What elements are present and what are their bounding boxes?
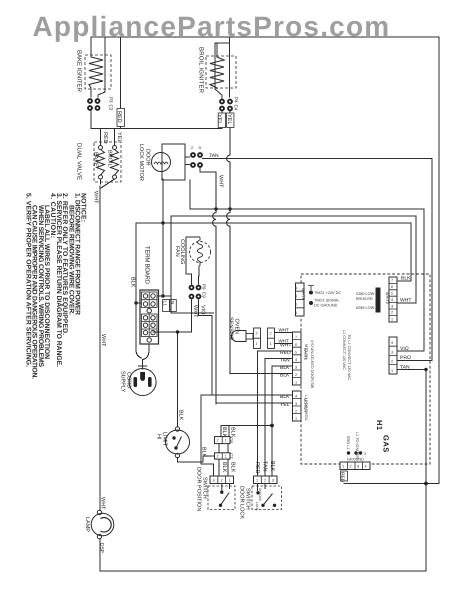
svg-text:1: 1 <box>295 311 297 315</box>
svg-text:UNLOCK: UNLOCK <box>258 488 262 502</box>
svg-text:SENSOR: SENSOR <box>228 317 234 340</box>
door lock motor box <box>162 144 185 180</box>
svg-text:WHITE: WHITE <box>301 288 305 301</box>
wire: valve bake drop RED <box>100 129 102 146</box>
svg-text:BLK: BLK <box>280 394 290 400</box>
wire: BLK board lead to door position switch <box>201 395 293 476</box>
rotated wire labels <box>93 97 346 510</box>
connector P2/C2 <box>190 152 203 168</box>
wire: BLK lead 2 to corridor <box>230 373 293 375</box>
svg-text:3: 3 <box>295 402 297 406</box>
svg-text:MOTOR: MOTOR <box>303 398 307 412</box>
wire: BLK pin lead <box>397 280 411 282</box>
svg-text:OVEN: OVEN <box>234 319 240 335</box>
label box RED tap <box>117 109 125 127</box>
wire: sensor WHT lead 1 <box>275 332 293 334</box>
junction bottom RED line / right vertical <box>424 482 428 486</box>
cooling fan box <box>186 237 200 274</box>
svg-text:DSP: DSP <box>99 543 105 553</box>
svg-text:VIO: VIO <box>400 346 409 352</box>
svg-text:4: 4 <box>295 395 297 399</box>
resistor bake igniter element <box>89 57 103 88</box>
svg-text:BAKE: BAKE <box>93 152 99 167</box>
svg-text:TAN: TAN <box>280 358 290 364</box>
door lock switch dashed box <box>252 486 282 510</box>
oven sensor connector half 2 <box>268 328 275 349</box>
wire: fan WHT down <box>191 300 193 332</box>
svg-text:1: 1 <box>270 342 272 346</box>
wire: bottom RED line from board connector to right side <box>344 483 439 485</box>
svg-text:2: 2 <box>221 479 223 483</box>
svg-text:DC GROUND: DC GROUND <box>314 304 338 308</box>
header P5 <box>389 277 397 322</box>
svg-text:2: 2 <box>217 439 219 443</box>
junction TAN pin / right vertical <box>424 368 427 371</box>
wire: RED tap from top line <box>120 37 122 129</box>
resistor broil valve coil <box>111 150 119 176</box>
svg-text:LOCK: LOCK <box>255 502 259 512</box>
svg-text:2: 2 <box>364 452 366 456</box>
svg-text:BLK: BLK <box>229 462 235 473</box>
svg-text:DOOR LOCK: DOOR LOCK <box>239 486 245 519</box>
svg-text:1: 1 <box>295 417 297 421</box>
door position switch dashed box <box>208 486 235 510</box>
wire: bottom neutral line to lamp <box>100 570 426 572</box>
wire: door lock motor left lead <box>162 179 164 296</box>
svg-text:YEL: YEL <box>216 114 222 124</box>
svg-text:1: 1 <box>342 465 344 469</box>
junction BLK door switch branch <box>270 424 274 428</box>
wire: fan VIO lead <box>199 300 213 316</box>
label box YEL right <box>227 113 234 128</box>
wire: BLK lead to door lock switch <box>272 366 293 476</box>
svg-text:1: 1 <box>225 439 227 443</box>
svg-text:HI: HI <box>156 434 162 440</box>
wire: PRO pin lead <box>397 360 432 362</box>
wire: YEL board lead <box>216 402 293 404</box>
svg-text:SWITCH: SWITCH <box>245 488 251 510</box>
connector C8 <box>215 437 231 444</box>
rotated component labels <box>76 47 391 553</box>
resistor bake valve coil <box>97 150 105 176</box>
svg-text:2: 2 <box>295 303 297 307</box>
svg-text:2: 2 <box>391 311 393 315</box>
svg-text:BLK: BLK <box>130 277 136 288</box>
svg-text:N: N <box>170 301 175 304</box>
bake igniter dashed enclosure <box>85 55 111 89</box>
svg-text:SUPPLY: SUPPLY <box>120 371 126 393</box>
svg-text:3: 3 <box>391 351 393 355</box>
svg-text:DOOR: DOOR <box>145 149 151 166</box>
horizontal wire labels <box>209 153 411 408</box>
wire: igniter return bus <box>91 128 222 130</box>
broil igniter dashed enclosure <box>206 56 236 88</box>
wire: broil igniter loop top <box>215 42 229 44</box>
svg-text:1: 1 <box>391 369 393 373</box>
wire: broil resistor stub <box>216 43 218 57</box>
wire: top L1 line <box>91 36 439 38</box>
svg-text:L1 CONNECT 120 VAC: L1 CONNECT 120 VAC <box>342 330 346 370</box>
svg-text:4: 4 <box>295 287 297 291</box>
svg-text:2: 2 <box>295 410 297 414</box>
wire: sensor WHT lead 2 <box>275 343 293 345</box>
svg-text:7: 7 <box>391 279 393 283</box>
dual valve dashed enclosure <box>94 142 121 182</box>
svg-text:WHT: WHT <box>279 328 289 333</box>
wire: WHT pin lead <box>397 302 416 304</box>
wire: bus2 left drop to term board <box>170 216 172 313</box>
header P3 <box>293 391 302 421</box>
svg-text:BLK: BLK <box>280 373 290 379</box>
svg-text:5. VERIFY PROPER OPERATION AFT: 5. VERIFY PROPER OPERATION AFTER SERVICI… <box>25 193 32 367</box>
wire: bus3 drop to BLK pin <box>410 223 412 281</box>
door position switch connector <box>210 476 234 484</box>
svg-text:BLK: BLK <box>221 427 227 438</box>
svg-text:4+0 UNLOCKED DOOR SW: 4+0 UNLOCKED DOOR SW <box>310 340 314 389</box>
supply cord plug <box>129 369 156 396</box>
svg-text:RED: RED <box>339 472 345 483</box>
junction BLK / term board <box>134 301 137 304</box>
svg-text:4: 4 <box>391 298 393 302</box>
svg-text:C9: C9 <box>202 292 207 298</box>
connector C7 <box>215 453 231 459</box>
svg-text:4: 4 <box>295 358 297 362</box>
header P2 <box>293 332 302 385</box>
door lock switch connector <box>254 476 278 484</box>
svg-text:YEL: YEL <box>116 132 122 142</box>
svg-text:1: 1 <box>256 342 258 346</box>
wire: term board bottom to supply cord <box>143 344 149 360</box>
svg-text:BRO L1: BRO L1 <box>346 436 350 450</box>
label box L1 <box>163 300 170 312</box>
wire: bus line 1 <box>190 208 424 210</box>
svg-text:LAMP: LAMP <box>84 517 90 532</box>
wire: C8 to C7 stubs <box>219 444 228 453</box>
terminal board body <box>140 290 159 344</box>
svg-text:SWITCH: SWITCH <box>202 477 208 499</box>
wire: WHT/YEL corridor vertical <box>213 172 216 404</box>
svg-text:WHT: WHT <box>100 334 106 347</box>
wire: hi-limit lower lead <box>178 456 215 462</box>
wire: TAN pin lead <box>397 369 426 371</box>
wire: valve common WHT down <box>100 179 102 184</box>
svg-text:P9: P9 <box>202 284 207 290</box>
connector P9/C9 <box>189 285 202 300</box>
svg-text:PRO: PRO <box>400 355 411 361</box>
svg-text:RED: RED <box>116 111 122 123</box>
label box RED <box>341 471 348 481</box>
svg-text:2: 2 <box>191 146 193 150</box>
wire: bake connector to red bus <box>90 111 92 129</box>
label box N <box>170 300 177 312</box>
oven sensor connector half 1 <box>254 328 261 349</box>
svg-text:CORD: CORD <box>126 372 132 388</box>
wire: TAN lead to door lock switch <box>265 359 293 476</box>
svg-text:6: 6 <box>295 343 297 347</box>
wire: broil YEL to return bus <box>221 111 223 129</box>
wire: bake igniter lower leg to connector <box>90 88 92 97</box>
svg-text:DOOR POSITION: DOOR POSITION <box>196 467 202 511</box>
wire: C7 to door position connector stubs <box>219 459 228 476</box>
wire: broil igniter right leg from top line <box>228 37 230 97</box>
svg-text:YEL: YEL <box>280 402 290 408</box>
svg-text:RED: RED <box>102 132 108 144</box>
tiny board annotations <box>191 146 393 512</box>
header P4 <box>389 337 397 374</box>
svg-text:1: 1 <box>391 318 393 322</box>
TMO1 sensor pins <box>309 291 313 306</box>
svg-text:C8: C8 <box>229 437 234 443</box>
wire: broil igniter left leg <box>215 43 222 99</box>
svg-text:1: 1 <box>229 479 231 483</box>
control board dashed outline <box>301 274 430 464</box>
door lock switch contacts <box>257 484 259 492</box>
svg-text:1: 1 <box>225 455 227 459</box>
label box YEL left <box>218 113 225 128</box>
wire: C8 stubs <box>221 426 229 437</box>
wire: valve broil bottom diagonal <box>101 179 115 188</box>
junction WHT corridor / bus1 <box>214 207 217 210</box>
wire: term board L1 link <box>157 295 171 297</box>
svg-text:WHITE: WHITE <box>303 348 307 361</box>
connector P3/C3 <box>87 98 100 111</box>
wire: TAN from P2 connector to right side <box>203 158 433 160</box>
header P1 <box>296 283 305 316</box>
svg-text:4: 4 <box>391 341 393 345</box>
wire: door interlock BLK branch line <box>221 425 272 427</box>
svg-text:WHT: WHT <box>400 298 411 304</box>
svg-text:BLK: BLK <box>280 365 290 371</box>
svg-text:3: 3 <box>213 479 215 483</box>
svg-text:RED: RED <box>254 462 260 474</box>
wire: bus3 left drop BLK <box>136 223 142 358</box>
wire: lamp bottom lead <box>99 539 101 572</box>
svg-text:4: 4 <box>365 465 367 469</box>
svg-text:BROIL IGNITER: BROIL IGNITER <box>198 47 205 94</box>
svg-text:C3: C3 <box>109 105 114 111</box>
dual valve terminals <box>99 146 103 150</box>
wire: bake igniter right loop leg <box>98 37 105 97</box>
svg-text:BLK: BLK <box>269 461 275 472</box>
hi limit body <box>166 430 190 454</box>
wire: broil YEL long drop to board BLK pin <box>227 111 230 374</box>
svg-text:L1 TO IGNITER: L1 TO IGNITER <box>355 432 359 459</box>
svg-text:TAN: TAN <box>400 365 410 371</box>
svg-text:3: 3 <box>391 305 393 309</box>
oven lamp <box>91 513 114 536</box>
svg-text:BLK: BLK <box>401 276 411 282</box>
svg-text:TMO1 +24V DC: TMO1 +24V DC <box>314 291 341 295</box>
svg-text:2: 2 <box>391 360 393 364</box>
door position switch contacts <box>221 484 223 491</box>
wire: term board left stub <box>136 302 141 304</box>
wire: motor right lead to bus <box>189 180 191 209</box>
wire: hi-limit feed down <box>177 332 179 427</box>
svg-text:WHT: WHT <box>100 497 106 510</box>
svg-text:H1: H1 <box>375 420 384 431</box>
svg-text:2: 2 <box>217 455 219 459</box>
svg-text:L1: L1 <box>163 301 168 307</box>
wire: bake igniter left leg <box>90 37 92 57</box>
wire: term board row to hi-limit and fan <box>153 331 192 333</box>
svg-text:BLK: BLK <box>178 410 184 421</box>
junction motor lead / L1 link <box>161 294 164 297</box>
junction YEL corridor / bus1 <box>228 207 231 210</box>
svg-text:C4: C4 <box>234 105 239 111</box>
svg-text:2: 2 <box>270 332 272 336</box>
svg-text:LIMIT: LIMIT <box>162 432 168 447</box>
svg-text:WHT: WHT <box>280 343 291 349</box>
wire: bus2 drop to WHT pin <box>415 216 417 303</box>
svg-text:BAKE IGNITER: BAKE IGNITER <box>76 50 83 93</box>
svg-text:BROIL: BROIL <box>107 150 113 167</box>
svg-text:5: 5 <box>391 292 393 296</box>
wire: TAN right drop to PRO pin <box>431 159 433 361</box>
svg-text:FAN: FAN <box>174 246 180 257</box>
wire: VIO corridor vertical <box>211 316 213 395</box>
svg-text:P4: P4 <box>234 97 239 103</box>
svg-text:6: 6 <box>391 285 393 289</box>
wire: VIO pin lead <box>397 350 424 352</box>
wire: bus line 2 <box>171 215 416 217</box>
svg-text:2: 2 <box>256 332 258 336</box>
svg-text:WHT: WHT <box>192 305 198 318</box>
svg-text:BLK: BLK <box>221 462 227 473</box>
svg-text:WHT: WHT <box>218 175 224 188</box>
svg-text:P3: P3 <box>109 97 114 103</box>
svg-text:BROILER: BROILER <box>356 297 373 301</box>
wire: right lower vertical to bottom line <box>425 370 427 572</box>
svg-text:6289 LOW: 6289 LOW <box>356 306 375 310</box>
wire: right side drop from top line <box>438 37 440 484</box>
door lock motor circle <box>152 153 171 172</box>
wire: fan box stubs to P9 <box>192 266 200 284</box>
svg-text:C7: C7 <box>229 453 234 459</box>
wire: bus1 drop to VIO pin <box>423 209 425 351</box>
wire: N link lower <box>171 312 214 314</box>
svg-text:3: 3 <box>357 465 359 469</box>
cooling fan motor circle <box>190 242 211 263</box>
svg-text:TAN: TAN <box>209 153 219 159</box>
svg-text:3: 3 <box>272 479 274 483</box>
svg-text:5280 LOW: 5280 LOW <box>356 292 375 296</box>
oven sensor bulb <box>232 331 246 342</box>
svg-text:BLK: BLK <box>201 447 207 458</box>
wire: RED lead to door lock switch <box>258 351 293 476</box>
svg-text:LOCK MOTOR: LOCK MOTOR <box>138 144 144 181</box>
svg-text:D: D <box>199 146 202 150</box>
junction hi-limit feed / term row <box>176 330 179 333</box>
svg-text:3: 3 <box>295 366 297 370</box>
svg-text:YEL: YEL <box>226 114 232 124</box>
junction motor lead / bus3 <box>161 221 164 224</box>
svg-text:AppliancePartsPros.com: AppliancePartsPros.com <box>33 11 391 42</box>
board bottom connector <box>340 462 370 470</box>
svg-text:TO L1 CONNECT 120 VAC: TO L1 CONNECT 120 VAC <box>347 334 351 380</box>
board component bar <box>376 288 380 312</box>
wire: bus line 3 <box>136 222 411 224</box>
notice text block (rotated) <box>25 193 87 379</box>
svg-text:2: 2 <box>264 479 266 483</box>
svg-text:TAN: TAN <box>262 461 268 472</box>
svg-text:DUAL VALVE: DUAL VALVE <box>76 143 83 180</box>
svg-text:VIO: VIO <box>200 305 206 315</box>
svg-text:7: 7 <box>295 336 297 340</box>
svg-text:WHITE: WHITE <box>385 292 389 305</box>
board ground pins <box>347 451 362 454</box>
wire: supply cord lead <box>142 360 144 367</box>
svg-text:2: 2 <box>350 465 352 469</box>
wire: motor WHT lead down <box>200 168 216 172</box>
svg-text:RED: RED <box>280 350 291 356</box>
svg-text:TMO1 SIGNAL: TMO1 SIGNAL <box>314 299 340 303</box>
svg-text:1: 1 <box>256 479 258 483</box>
resistor broil igniter element <box>210 57 224 89</box>
svg-text:2: 2 <box>295 373 297 377</box>
wire: valve broil drop YEL <box>114 129 116 146</box>
svg-text:3: 3 <box>295 295 297 299</box>
svg-text:5: 5 <box>295 351 297 355</box>
svg-text:GAS: GAS <box>382 435 391 453</box>
svg-text:1: 1 <box>295 381 297 385</box>
connector P4/C4 <box>219 99 233 112</box>
svg-text:WHT: WHT <box>93 191 99 204</box>
svg-text:TERM BOARD: TERM BOARD <box>144 246 151 285</box>
wire: WHT main drop to lamp <box>99 186 101 510</box>
